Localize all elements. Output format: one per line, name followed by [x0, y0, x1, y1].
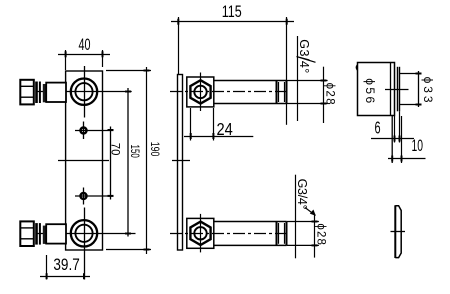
plate centerline tick: [172, 160, 190, 162]
dimension phi28 bottom: [287, 214, 319, 258]
svg-text:70: 70: [108, 143, 122, 156]
cup inner face line: [390, 63, 392, 116]
svg-text:6: 6: [375, 118, 381, 138]
svg-text:10: 10: [412, 137, 424, 155]
bottom thread end: [277, 222, 287, 246]
dimension phi28 top: [287, 67, 328, 123]
cup body: [358, 63, 395, 116]
dimension 115: [171, 17, 294, 125]
ticks 40: [66, 51, 103, 57]
ticks phi28 bottom: [312, 222, 318, 246]
flange collar top: [43, 84, 46, 102]
top union nut block: [187, 77, 214, 107]
svg-text:190: 190: [148, 142, 162, 157]
svg-text:115: 115: [222, 3, 242, 21]
top hex vertical centerline: [200, 73, 202, 112]
bottom union nut block: [187, 218, 214, 248]
hex nut top (side view): [20, 80, 34, 105]
svg-text:ϕ28: ϕ28: [314, 223, 326, 245]
boss circle top outer: [71, 79, 97, 105]
ticks phi28 top: [321, 81, 327, 104]
bottom pipe side view: [214, 222, 287, 246]
top fitting centerline horizontal: [36, 91, 132, 93]
dimension 24: [184, 108, 253, 141]
bottom fitting centerline horizontal: [36, 233, 136, 235]
top hex inner circle: [194, 86, 206, 98]
bottom hex vertical centerline: [200, 214, 202, 253]
collar lines: [398, 67, 400, 112]
ticks 190: [144, 71, 150, 250]
label G3/4 bottom: [296, 175, 316, 259]
cup centerline: [385, 89, 409, 91]
hex nut bottom (side view): [20, 221, 34, 246]
top hex (end view): [190, 80, 210, 103]
svg-text:40: 40: [79, 35, 91, 54]
dimension phi33: [418, 71, 420, 107]
bottom hex (end view): [190, 222, 210, 245]
svg-text:150: 150: [128, 145, 142, 159]
mounting plate: [66, 71, 103, 250]
svg-text:24: 24: [217, 119, 234, 139]
top thread end: [277, 81, 287, 104]
bottom pipe dash-dot centerline: [170, 233, 290, 235]
svg-text:ϕ33: ϕ33: [421, 77, 435, 103]
escutcheon side profile: [395, 205, 401, 258]
ticks 115: [178, 19, 286, 25]
washer bottom: [35, 223, 41, 245]
dimension 10: [388, 158, 426, 160]
dimension 70: [110, 127, 112, 200]
svg-text:G3/4°: G3/4°: [295, 179, 309, 210]
svg-text:ϕ56: ϕ56: [363, 78, 377, 103]
ticks phi33: [416, 74, 422, 105]
ticks 39.7: [47, 273, 84, 279]
svg-text:G3/4°: G3/4°: [297, 39, 311, 73]
arrowhead G3/4 bottom: [310, 210, 316, 216]
pipe bottom: [46, 224, 66, 243]
top pipe dash-dot centerline: [170, 91, 290, 93]
dimension 39.7: [40, 255, 90, 280]
label G3/4 top: [297, 36, 316, 121]
ticks 70: [108, 130, 114, 196]
plate horizontal centerline: [58, 160, 109, 162]
dimension 150: [127, 88, 129, 237]
ticks 150: [125, 92, 131, 234]
phi33 extension lines: [400, 74, 421, 105]
ticks 24: [191, 133, 214, 139]
boss circle bottom outer: [71, 220, 97, 246]
cup rim arc: [356, 65, 357, 70]
svg-text:ϕ28: ϕ28: [323, 83, 335, 105]
screw hole upper: [75, 122, 114, 140]
profile centerline: [391, 231, 406, 233]
top pipe side view: [214, 81, 287, 104]
boss circle bottom inner: [75, 225, 92, 242]
dimension 40: [58, 50, 110, 70]
dimension 190: [106, 67, 151, 254]
top fitting centerline vertical: [84, 66, 86, 118]
washer top: [35, 82, 41, 104]
plate edge-on: [178, 75, 183, 251]
svg-text:39.7: 39.7: [53, 255, 79, 274]
bottom fitting centerline vertical: [84, 208, 86, 280]
extension lines 6 and 10: [392, 111, 401, 163]
bottom hex inner circle: [194, 227, 206, 239]
flange collar bottom: [43, 226, 46, 244]
ticks 10: [392, 156, 401, 162]
boss circle top inner: [75, 83, 92, 100]
screw hole lower: [75, 188, 114, 205]
pipe top: [46, 83, 66, 102]
dimension 6: [371, 138, 414, 140]
ticks 6: [395, 136, 400, 142]
